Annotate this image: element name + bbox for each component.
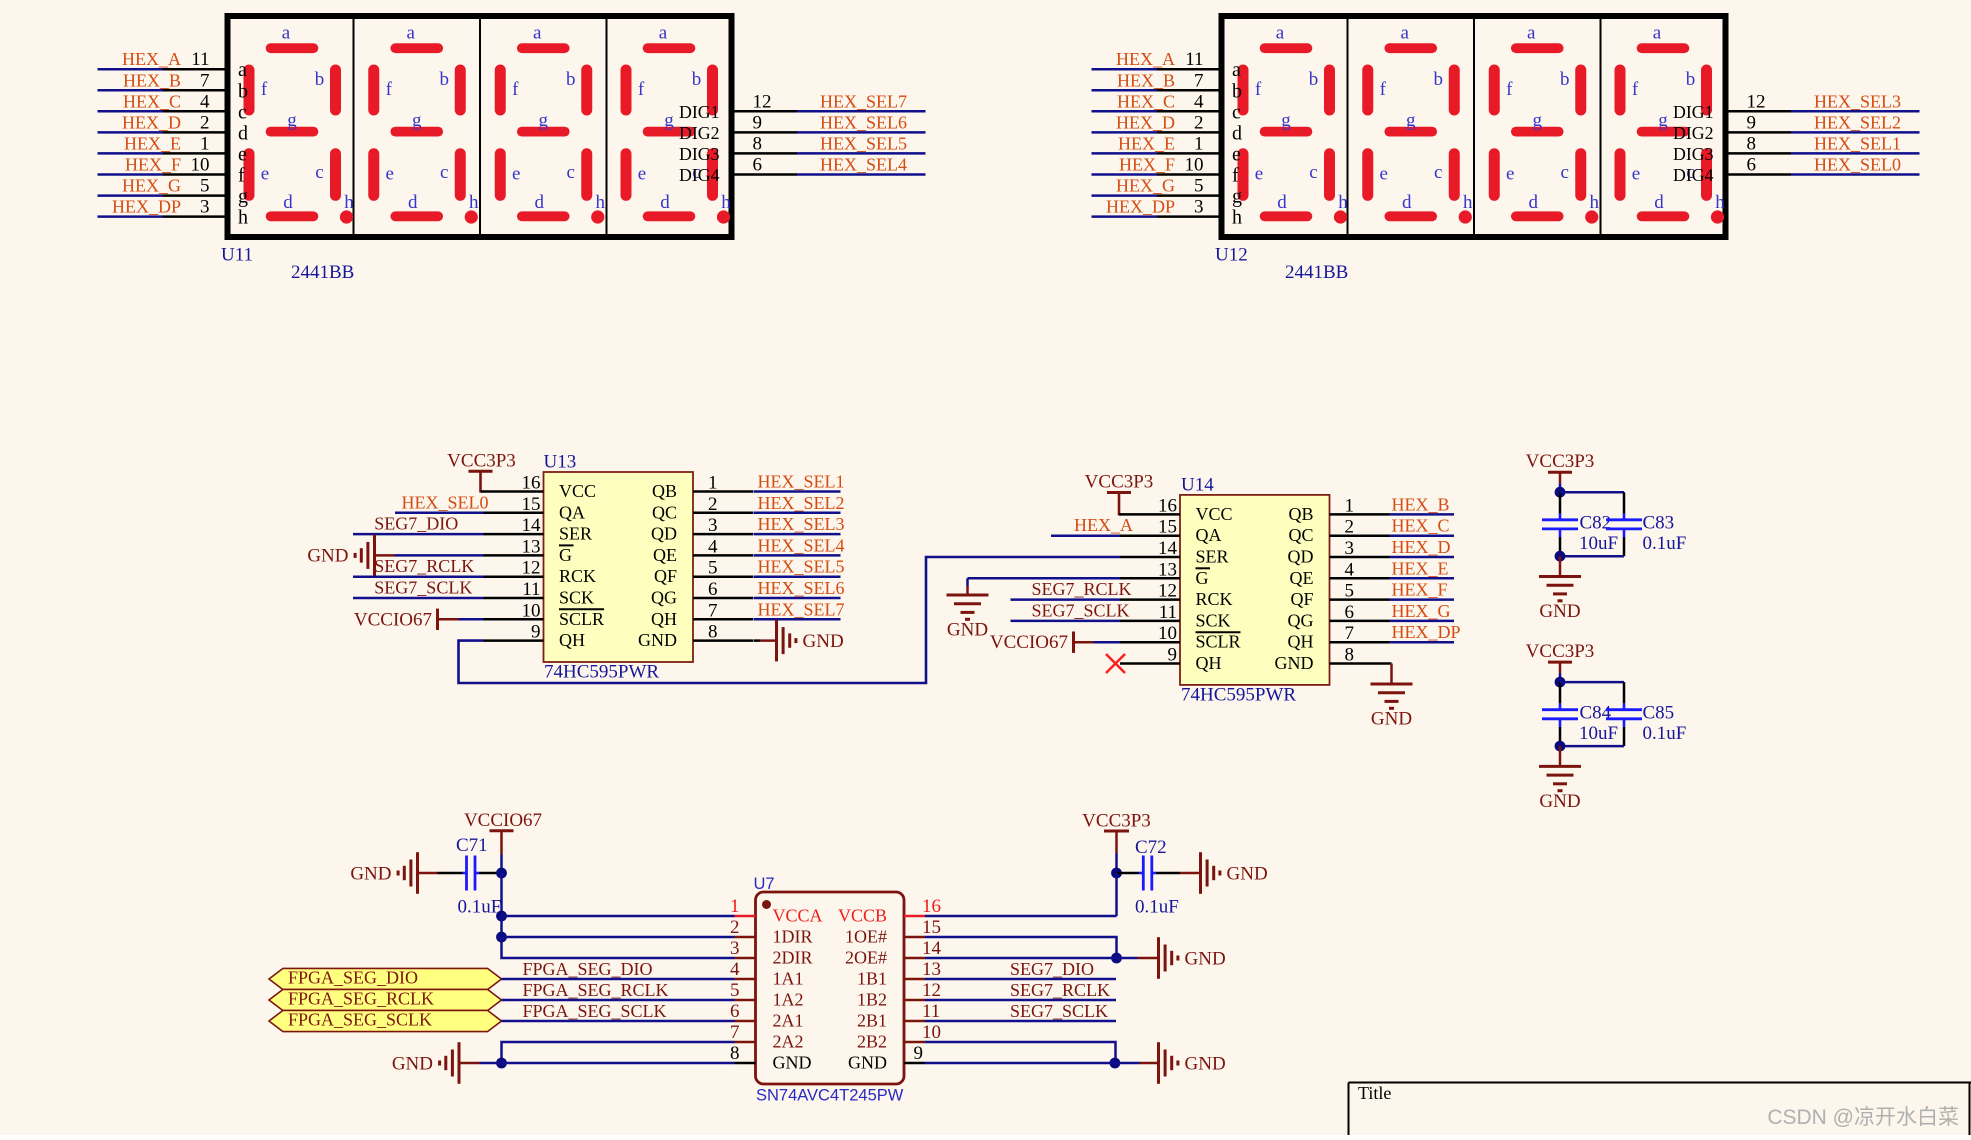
ground GND left of C71	[350, 852, 462, 894]
svg-text:8: 8	[1747, 133, 1757, 154]
wire HEX_SEL2 from U13 pin 2	[754, 493, 845, 513]
wire HEX_C to U11 pin 4	[98, 91, 225, 112]
svg-text:HEX_SEL7: HEX_SEL7	[758, 599, 845, 619]
svg-text:GND: GND	[1539, 601, 1580, 622]
svg-text:HEX_E: HEX_E	[1118, 133, 1175, 153]
wire rail down and to U7 pin 3 2DIR	[502, 937, 735, 958]
svg-text:2: 2	[200, 112, 210, 133]
wire FPGA_SEG_SCLK to U7 pin 6	[502, 1001, 735, 1021]
wire from U7 pin 10 2B2 down	[925, 1042, 1116, 1063]
svg-text:2A2: 2A2	[773, 1032, 804, 1052]
svg-text:HEX_A: HEX_A	[1116, 49, 1175, 69]
svg-text:2B2: 2B2	[857, 1032, 887, 1052]
svg-text:U13: U13	[544, 452, 577, 473]
svg-text:VCCB: VCCB	[838, 906, 887, 926]
svg-text:HEX_SEL3: HEX_SEL3	[758, 514, 845, 534]
svg-text:C83: C83	[1643, 513, 1675, 534]
wire from junction to C85	[1560, 682, 1624, 703]
svg-text:U11: U11	[221, 245, 253, 266]
capacitor C72 (0.1uF)	[1117, 837, 1181, 918]
power port VCCIO67 above C71	[464, 810, 542, 873]
svg-text:HEX_SEL1: HEX_SEL1	[1814, 133, 1901, 153]
wire from U7 pin 7 2A2 down to GND rail	[502, 1042, 735, 1063]
power port VCC3P3 above C84	[1526, 641, 1595, 682]
wire HEX_DP from U14 pin 7	[1390, 622, 1461, 642]
svg-text:5: 5	[1194, 176, 1204, 197]
svg-text:SEG7_RCLK: SEG7_RCLK	[1010, 980, 1110, 1000]
svg-text:VCC3P3: VCC3P3	[1526, 451, 1595, 472]
svg-text:CSDN @凉开水白菜: CSDN @凉开水白菜	[1767, 1106, 1959, 1129]
capacitor C83 (0.1uF)	[1606, 513, 1686, 555]
shift register U13 (74HC595PWR)	[484, 472, 754, 662]
wire from U7 pin 9 GND	[925, 1062, 1115, 1065]
wire HEX_SEL2 from U12 DIG2 pin 9	[1729, 112, 1920, 133]
svg-text:HEX_SEL0: HEX_SEL0	[1814, 155, 1901, 175]
svg-text:HEX_B: HEX_B	[1117, 70, 1175, 90]
wire SEG7_DIO from U7 pin 13	[925, 959, 1116, 979]
wire VCC3P3 rail down to U7 pin 16 VCCB	[925, 873, 1117, 916]
svg-text:HEX_B: HEX_B	[123, 70, 181, 90]
wire FPGA_SEG_RCLK to U7 pin 5	[502, 980, 735, 1000]
svg-text:VCCIO67: VCCIO67	[464, 810, 542, 831]
svg-text:3: 3	[200, 197, 210, 218]
svg-text:U7: U7	[754, 875, 775, 893]
svg-text:HEX_DP: HEX_DP	[112, 197, 181, 217]
svg-text:2: 2	[1194, 112, 1204, 133]
svg-text:GND: GND	[392, 1053, 433, 1074]
svg-text:10uF: 10uF	[1579, 533, 1618, 554]
svg-text:HEX_C: HEX_C	[123, 91, 181, 111]
svg-text:11: 11	[922, 1001, 940, 1022]
capacitor C85 (0.1uF)	[1606, 702, 1686, 744]
svg-text:HEX_E: HEX_E	[1392, 558, 1449, 578]
ground GND right of U7 pin 9	[1115, 1042, 1226, 1084]
svg-text:HEX_DP: HEX_DP	[1392, 622, 1461, 642]
wire HEX_SEL6 from U11 DIG2 pin 9	[735, 112, 926, 133]
junction node at U7 pin 8 wire	[496, 1058, 507, 1069]
ground GND at U14 pin 13	[947, 578, 1121, 640]
junction node above C84	[1555, 677, 1566, 688]
shift register U14 (74HC595PWR)	[1120, 495, 1390, 685]
wire HEX_G from U14 pin 6	[1390, 601, 1455, 621]
svg-text:HEX_B: HEX_B	[1392, 494, 1450, 514]
ground GND right of C72	[1180, 852, 1268, 894]
wire HEX_SEL5 from U11 DIG3 pin 8	[735, 133, 926, 154]
svg-text:VCC3P3: VCC3P3	[1082, 811, 1151, 832]
wire to U7 pin 1 VCCA	[502, 915, 735, 918]
svg-text:6: 6	[753, 155, 763, 176]
wire HEX_B to U11 pin 7	[98, 70, 225, 91]
wire HEX_D from U14 pin 3	[1390, 537, 1455, 557]
svg-text:9: 9	[1747, 112, 1757, 133]
svg-text:SEG7_SCLK: SEG7_SCLK	[1010, 1001, 1108, 1021]
junction node at C71 right	[496, 868, 507, 879]
svg-text:GND: GND	[848, 1053, 887, 1073]
svg-text:HEX_C: HEX_C	[1117, 91, 1175, 111]
wire SEG7_RCLK from U7 pin 12	[925, 980, 1116, 1000]
svg-text:4: 4	[1194, 91, 1204, 112]
ground GND below C82	[1539, 556, 1581, 622]
wire HEX_SEL3 from U12 DIG1 pin 12	[1729, 91, 1920, 112]
svg-text:GND: GND	[350, 863, 391, 884]
svg-text:10: 10	[191, 155, 210, 176]
svg-text:8: 8	[753, 133, 763, 154]
svg-text:74HC595PWR: 74HC595PWR	[544, 662, 659, 683]
svg-text:2A1: 2A1	[773, 1011, 804, 1031]
svg-text:VCC3P3: VCC3P3	[1526, 641, 1595, 662]
junction node at U7 pin 14 wire	[1111, 953, 1122, 964]
power port VCCIO67 at U14 pin 10	[990, 632, 1120, 654]
svg-text:VCCIO67: VCCIO67	[990, 632, 1068, 653]
wire HEX_SEL5 from U13 pin 5	[754, 557, 845, 577]
svg-text:1B2: 1B2	[857, 990, 887, 1010]
no-connect X at U14 pin 9	[1106, 654, 1125, 673]
svg-text:7: 7	[1194, 70, 1204, 91]
ground GND at U14 pin 8	[1371, 664, 1413, 730]
power port VCC3P3 above C72	[1082, 811, 1151, 874]
wire HEX_F to U12 pin 10	[1092, 155, 1219, 176]
svg-text:SEG7_DIO: SEG7_DIO	[1010, 959, 1094, 979]
ground GND below C84	[1539, 746, 1581, 812]
svg-text:9: 9	[753, 112, 763, 133]
svg-text:FPGA_SEG_DIO: FPGA_SEG_DIO	[288, 968, 418, 988]
svg-text:6: 6	[730, 1001, 740, 1022]
wire HEX_D to U12 pin 2	[1092, 112, 1219, 133]
svg-text:7: 7	[730, 1022, 740, 1043]
svg-text:HEX_G: HEX_G	[1116, 176, 1175, 196]
harness port FPGA_SEG_DIO	[269, 968, 502, 990]
svg-text:13: 13	[922, 959, 941, 980]
svg-text:0.1uF: 0.1uF	[1643, 723, 1687, 744]
svg-text:GND: GND	[1539, 791, 1580, 812]
wire HEX_D to U11 pin 2	[98, 112, 225, 133]
svg-text:HEX_SEL6: HEX_SEL6	[820, 112, 907, 132]
capacitor C82 (10uF)	[1542, 513, 1618, 555]
svg-text:6: 6	[1747, 155, 1757, 176]
svg-text:HEX_A: HEX_A	[122, 49, 181, 69]
svg-text:14: 14	[922, 938, 942, 959]
svg-text:HEX_G: HEX_G	[1392, 601, 1451, 621]
wire HEX_E to U11 pin 1	[98, 133, 225, 154]
svg-text:11: 11	[1185, 49, 1203, 70]
svg-text:Title: Title	[1358, 1083, 1391, 1103]
wire rail down to U7 pin 2	[500, 916, 503, 937]
svg-text:0.1uF: 0.1uF	[458, 897, 502, 918]
wire HEX_SEL4 from U11 DIG4 pin 6	[735, 155, 926, 176]
title block border	[1349, 1083, 1971, 1136]
svg-text:2441BB: 2441BB	[1285, 262, 1348, 283]
svg-text:GND: GND	[773, 1053, 812, 1073]
wire HEX_C to U12 pin 4	[1092, 91, 1219, 112]
wire HEX_SEL0 from U12 DIG4 pin 6	[1729, 155, 1920, 176]
ground GND right of U7 pins 14/15	[1117, 937, 1226, 979]
svg-text:VCC3P3: VCC3P3	[447, 451, 516, 472]
svg-text:GND: GND	[803, 631, 844, 652]
svg-text:HEX_F: HEX_F	[1392, 580, 1448, 600]
svg-text:HEX_D: HEX_D	[1116, 112, 1175, 132]
svg-text:GND: GND	[947, 620, 988, 641]
svg-text:U14: U14	[1181, 475, 1214, 496]
svg-text:SN74AVC4T245PW: SN74AVC4T245PW	[756, 1087, 904, 1105]
svg-text:11: 11	[191, 49, 209, 70]
svg-text:3: 3	[1194, 197, 1204, 218]
seven-segment display U12 (2441BB)	[1222, 16, 1726, 237]
svg-text:GND: GND	[1185, 1053, 1226, 1074]
wire HEX_SEL6 from U13 pin 6	[754, 578, 845, 598]
junction node below C84	[1555, 741, 1566, 752]
wire HEX_SEL7 from U13 pin 7	[754, 599, 845, 619]
wire HEX_SEL7 from U11 DIG1 pin 12	[735, 91, 926, 112]
wire from U7 pin 15 1OE# down	[925, 937, 1117, 958]
svg-text:HEX_E: HEX_E	[124, 133, 181, 153]
wire HEX_SEL1 from U12 DIG3 pin 8	[1729, 133, 1920, 154]
svg-text:FPGA_SEG_SCLK: FPGA_SEG_SCLK	[288, 1010, 432, 1030]
wire HEX_A to U12 pin 11	[1092, 49, 1219, 70]
svg-text:1A2: 1A2	[773, 990, 804, 1010]
svg-text:C85: C85	[1643, 702, 1675, 723]
wire HEX_DP to U11 pin 3	[98, 197, 225, 218]
wire HEX_SEL1 from U13 pin 1	[754, 472, 845, 492]
svg-text:12: 12	[922, 980, 941, 1001]
power port VCC3P3 above C82	[1526, 451, 1595, 492]
level shifter U7 (SN74AVC4T245PW)	[730, 892, 942, 1084]
ground GND left of U7 pin 8	[392, 1042, 735, 1084]
harness port FPGA_SEG_SCLK	[269, 1010, 502, 1032]
svg-text:VCCA: VCCA	[773, 906, 823, 926]
svg-text:GND: GND	[307, 546, 348, 567]
junction node at U7 pin 1 wire	[496, 911, 507, 922]
svg-text:HEX_F: HEX_F	[1119, 155, 1175, 175]
wire HEX_G to U11 pin 5	[98, 176, 225, 197]
wire SEG7_SCLK to U14 pin 11	[1011, 600, 1130, 621]
svg-text:9: 9	[914, 1043, 924, 1064]
wire HEX_G to U12 pin 5	[1092, 176, 1219, 197]
wire HEX_B to U12 pin 7	[1092, 70, 1219, 91]
svg-text:VCCIO67: VCCIO67	[354, 609, 432, 630]
svg-text:SEG7_RCLK: SEG7_RCLK	[1032, 579, 1132, 599]
wire HEX_E to U12 pin 1	[1092, 133, 1219, 154]
svg-text:HEX_SEL4: HEX_SEL4	[758, 535, 845, 555]
svg-text:10: 10	[922, 1022, 941, 1043]
wire HEX_C from U14 pin 2	[1390, 516, 1455, 536]
svg-text:10: 10	[1185, 155, 1204, 176]
ground GND at U13 pin 8	[754, 620, 844, 662]
wire from junction to C83	[1560, 492, 1624, 513]
svg-text:HEX_SEL2: HEX_SEL2	[758, 493, 845, 513]
wire from U13 pin 9 QH to U14 pin 14 SER	[459, 557, 1121, 683]
svg-text:SEG7_SCLK: SEG7_SCLK	[1032, 600, 1130, 620]
wire HEX_SEL4 from U13 pin 4	[754, 535, 845, 555]
svg-text:2: 2	[730, 917, 740, 938]
junction node at C72 left	[1111, 868, 1122, 879]
ground GND at U13 pin 13	[307, 535, 483, 577]
svg-text:4: 4	[730, 959, 740, 980]
svg-text:FPGA_SEG_RCLK: FPGA_SEG_RCLK	[288, 989, 434, 1009]
svg-text:2B1: 2B1	[857, 1011, 887, 1031]
svg-text:HEX_F: HEX_F	[125, 155, 181, 175]
wire VCCA rail down from C71	[500, 873, 503, 916]
svg-text:1: 1	[730, 896, 740, 917]
svg-text:HEX_C: HEX_C	[1392, 516, 1450, 536]
svg-text:FPGA_SEG_DIO: FPGA_SEG_DIO	[523, 959, 653, 979]
power port VCCIO67 at U13 pin 10	[354, 609, 484, 631]
svg-text:HEX_SEL5: HEX_SEL5	[820, 133, 907, 153]
wire to U7 pin 2 1DIR	[502, 936, 735, 939]
svg-text:HEX_SEL1: HEX_SEL1	[758, 472, 845, 492]
wire below C82 and C83	[1560, 537, 1624, 556]
svg-text:SEG7_RCLK: SEG7_RCLK	[374, 556, 474, 576]
junction node at U7 pin 2 wire	[496, 932, 507, 943]
svg-text:HEX_D: HEX_D	[122, 112, 181, 132]
svg-text:HEX_SEL7: HEX_SEL7	[820, 91, 907, 111]
svg-text:1A1: 1A1	[773, 969, 804, 989]
svg-text:5: 5	[730, 980, 740, 1001]
svg-text:C72: C72	[1135, 837, 1167, 858]
svg-text:GND: GND	[1371, 709, 1412, 730]
svg-text:2OE#: 2OE#	[845, 948, 887, 968]
svg-text:C71: C71	[456, 835, 488, 856]
svg-text:1OE#: 1OE#	[845, 927, 887, 947]
svg-text:HEX_SEL5: HEX_SEL5	[758, 557, 845, 577]
wire SEG7_SCLK from U7 pin 11	[925, 1001, 1116, 1021]
wire HEX_B from U14 pin 1	[1390, 494, 1455, 514]
svg-text:0.1uF: 0.1uF	[1643, 533, 1687, 554]
svg-text:HEX_SEL4: HEX_SEL4	[820, 155, 907, 175]
svg-text:HEX_SEL6: HEX_SEL6	[758, 578, 845, 598]
junction node below C82	[1555, 551, 1566, 562]
svg-text:5: 5	[200, 176, 210, 197]
svg-text:C84: C84	[1580, 702, 1612, 723]
junction node above C82	[1555, 487, 1566, 498]
svg-text:15: 15	[922, 917, 941, 938]
junction node at U7 pin 9 wire	[1110, 1058, 1121, 1069]
svg-text:8: 8	[730, 1043, 740, 1064]
wire HEX_F from U14 pin 5	[1390, 580, 1455, 600]
svg-text:HEX_A: HEX_A	[1074, 515, 1133, 535]
svg-text:16: 16	[922, 896, 941, 917]
wire FPGA_SEG_DIO to U7 pin 4	[502, 959, 735, 979]
power port VCC3P3 at U14 pin 16	[1085, 472, 1154, 516]
svg-text:FPGA_SEG_SCLK: FPGA_SEG_SCLK	[523, 1001, 667, 1021]
wire HEX_F to U11 pin 10	[98, 155, 225, 176]
svg-text:C82: C82	[1580, 513, 1612, 534]
svg-text:SEG7_SCLK: SEG7_SCLK	[374, 578, 472, 598]
capacitor C71 (0.1uF)	[456, 835, 502, 918]
wire SEG7_SCLK to U13 pin 11	[353, 578, 484, 599]
svg-text:3: 3	[730, 938, 740, 959]
wire HEX_A to U14 pin 15	[1051, 515, 1133, 536]
svg-text:HEX_SEL3: HEX_SEL3	[1814, 91, 1901, 111]
wire below C84 and C85	[1560, 727, 1624, 746]
svg-text:HEX_G: HEX_G	[122, 176, 181, 196]
svg-text:VCC3P3: VCC3P3	[1085, 472, 1154, 493]
svg-text:12: 12	[753, 91, 772, 112]
svg-text:GND: GND	[1227, 863, 1268, 884]
svg-text:U12: U12	[1215, 245, 1248, 266]
wire SEG7_DIO to U13 pin 14	[353, 514, 484, 535]
svg-text:12: 12	[1747, 91, 1766, 112]
svg-text:7: 7	[200, 70, 210, 91]
svg-text:0.1uF: 0.1uF	[1135, 897, 1179, 918]
harness port FPGA_SEG_RCLK	[269, 989, 502, 1011]
svg-text:10uF: 10uF	[1579, 723, 1618, 744]
svg-text:2441BB: 2441BB	[291, 262, 354, 283]
svg-text:1: 1	[1194, 133, 1204, 154]
svg-text:1DIR: 1DIR	[773, 927, 813, 947]
wire SEG7_RCLK to U13 pin 12	[353, 556, 484, 577]
svg-text:HEX_SEL0: HEX_SEL0	[402, 492, 489, 512]
svg-text:4: 4	[200, 91, 210, 112]
svg-text:1: 1	[200, 133, 210, 154]
wire HEX_E from U14 pin 4	[1390, 558, 1455, 578]
power port VCC3P3 at U13 pin 16	[447, 451, 516, 493]
svg-text:GND: GND	[1185, 948, 1226, 969]
svg-text:HEX_DP: HEX_DP	[1106, 197, 1175, 217]
svg-text:2DIR: 2DIR	[773, 948, 813, 968]
svg-text:SEG7_DIO: SEG7_DIO	[374, 514, 458, 534]
wire HEX_A to U11 pin 11	[98, 49, 225, 70]
svg-text:1B1: 1B1	[857, 969, 887, 989]
wire HEX_SEL0 to U13 pin 15	[395, 492, 489, 513]
wire HEX_DP to U12 pin 3	[1092, 197, 1219, 218]
svg-text:HEX_D: HEX_D	[1392, 537, 1451, 557]
capacitor C84 (10uF)	[1542, 702, 1618, 744]
wire from U7 pin 14 2OE#	[925, 957, 1117, 960]
svg-text:FPGA_SEG_RCLK: FPGA_SEG_RCLK	[523, 980, 669, 1000]
svg-text:74HC595PWR: 74HC595PWR	[1181, 684, 1296, 705]
wire SEG7_RCLK to U14 pin 12	[1011, 579, 1132, 600]
wire HEX_SEL3 from U13 pin 3	[754, 514, 845, 534]
svg-text:HEX_SEL2: HEX_SEL2	[1814, 112, 1901, 132]
seven-segment display U11 (2441BB)	[228, 16, 732, 237]
